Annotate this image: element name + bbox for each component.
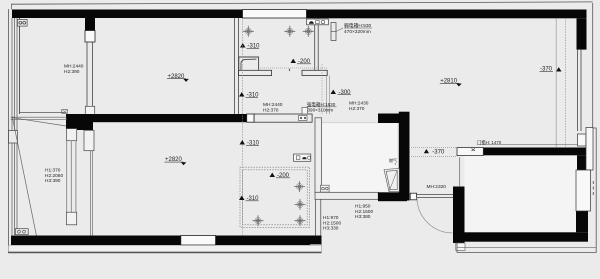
svg-text:H2:1500: H2:1500 bbox=[323, 220, 341, 226]
wall stub between room1 and room2 bbox=[85, 18, 95, 31]
dimension line above room9 top wall bbox=[477, 144, 592, 146]
弱电箱 wall box bbox=[331, 23, 336, 41]
wall top-right corner vertical bbox=[577, 18, 587, 49]
room9 right white box above corner bbox=[578, 134, 587, 146]
room7 top edge line bbox=[322, 122, 398, 124]
switch mark in threshold bbox=[472, 149, 476, 152]
wall top band right segment bbox=[307, 10, 587, 19]
fan symbol box top bbox=[307, 19, 329, 25]
sliding door frame box below column bbox=[84, 130, 94, 150]
room7 bottom black block bbox=[378, 192, 407, 201]
svg-text:燃气: 燃气 bbox=[389, 157, 397, 163]
svg-text:470×320mm: 470×320mm bbox=[344, 29, 371, 35]
balcony diagonal 2 bbox=[13, 118, 67, 126]
label -200 room3 bbox=[291, 59, 297, 63]
sliding door track lines bbox=[89, 151, 91, 236]
white box below left wall bbox=[456, 243, 465, 250]
room1 south line bbox=[20, 112, 67, 114]
label -310 room3 bbox=[240, 43, 246, 47]
dashed line right side vertical bbox=[564, 18, 566, 147]
niche box below stub bbox=[85, 31, 95, 43]
svg-text:门槛H: 1470: 门槛H: 1470 bbox=[477, 139, 502, 146]
label -310 room6 lower bbox=[239, 196, 245, 200]
svg-text:MH:2440: MH:2440 bbox=[64, 64, 84, 70]
dotted ceiling line corridor bbox=[258, 67, 327, 69]
entry door threshold lines bbox=[417, 194, 453, 196]
top-left connector bbox=[10, 4, 12, 9]
label -310 room6 upper bbox=[240, 140, 246, 144]
tick below 燃气 bbox=[395, 163, 396, 164]
L wall horizontal (room4 SW) bbox=[378, 114, 409, 124]
dotted doorway line lower bbox=[409, 156, 457, 158]
bottom wall end outline bbox=[310, 244, 321, 250]
sockets row box room6 top bbox=[294, 154, 311, 161]
room6 right wall outlined band bbox=[315, 118, 322, 193]
wall lines below band down to bottom wall bbox=[315, 199, 317, 236]
wall end box above mid wall bbox=[85, 106, 94, 114]
dotted doorway line upper bbox=[409, 147, 457, 149]
room9 bottom wall bbox=[465, 232, 589, 241]
window W1 top (bathroom window) bbox=[243, 10, 307, 19]
svg-text:H2:390: H2:390 bbox=[64, 69, 80, 75]
svg-text:MH:2430: MH:2430 bbox=[349, 101, 369, 107]
room9 right wall NE vertical bbox=[577, 155, 586, 170]
room9 outer outline right bbox=[457, 128, 596, 252]
room9 outer outline inner line bbox=[457, 247, 596, 249]
svg-text:MH:2440: MH:2440 bbox=[263, 102, 283, 108]
label -300 bbox=[331, 90, 337, 94]
room1 left wall line bbox=[19, 18, 21, 114]
thin wall room2/room3 double line bbox=[234, 18, 236, 114]
bottom outline band bbox=[8, 245, 321, 252]
window room5/balcony lines bbox=[66, 141, 68, 213]
door jamb box entry bbox=[410, 193, 416, 200]
outer boundary line right upper bbox=[592, 3, 594, 128]
bathroom room3: shower corner bbox=[239, 57, 259, 72]
outer boundary line left bbox=[7, 9, 9, 253]
svg-text:H3:390: H3:390 bbox=[45, 178, 61, 184]
svg-text:H1:370: H1:370 bbox=[45, 168, 61, 174]
bathroom south wall right segment bbox=[302, 70, 327, 75]
svg-text:H1:950: H1:950 bbox=[355, 204, 371, 210]
svg-text:-370: -370 bbox=[432, 149, 445, 155]
room9 interior white floor bbox=[465, 155, 578, 232]
强电箱 wall box bbox=[302, 108, 308, 115]
corridor right wall double line bbox=[326, 76, 328, 115]
svg-text:H2:370: H2:370 bbox=[263, 107, 279, 113]
window end box bottom bbox=[66, 212, 76, 225]
balcony diagonal 1 bbox=[13, 118, 37, 236]
socket symbol in low wall bbox=[299, 116, 308, 121]
balcony north line bbox=[11, 116, 67, 118]
label -200 room6 bbox=[270, 173, 276, 177]
small box with X on wall below room1 bbox=[62, 110, 68, 114]
svg-text:H3:380: H3:380 bbox=[355, 214, 371, 220]
wall top band left segment bbox=[12, 10, 243, 19]
bathroom south wall left segment bbox=[239, 70, 272, 75]
svg-text:-300: -300 bbox=[339, 90, 352, 96]
svg-text:MH:2320: MH:2320 bbox=[427, 184, 447, 190]
label -310 corridor bbox=[239, 92, 245, 96]
middle vertical wall bbox=[399, 112, 410, 201]
dotted vertical line corridor left bbox=[242, 18, 244, 235]
entry door arc bbox=[417, 197, 453, 233]
mid wall column bbox=[66, 114, 93, 130]
low wall band (white) corridor bottom bbox=[254, 114, 312, 122]
entry right wall vertical bbox=[453, 187, 465, 243]
left window mullion box bbox=[9, 131, 18, 144]
door edge line room9 bbox=[459, 157, 461, 187]
room7 white floor bbox=[322, 123, 398, 192]
svg-text:H2:370: H2:370 bbox=[349, 106, 365, 112]
bottom wall left segment bbox=[11, 236, 181, 246]
thin wall room3/room4 bbox=[314, 18, 316, 70]
room9 right window column upper bbox=[586, 128, 593, 171]
thin wall room1/room2 double line bbox=[86, 42, 88, 107]
room9 right wall lower vertical bbox=[576, 211, 588, 232]
dashed ceiling line corridor right bbox=[321, 64, 323, 114]
tick below -200 bbox=[289, 69, 291, 72]
svg-text:H2:2060: H2:2060 bbox=[45, 173, 63, 179]
socket symbol double circle bbox=[321, 185, 330, 192]
room9 top wall bbox=[483, 148, 586, 156]
ceiling lamp crosses room3 bbox=[243, 26, 314, 37]
window right edge (double lines below corner wall) bbox=[577, 50, 579, 131]
svg-text:390×310mm: 390×310mm bbox=[308, 108, 334, 113]
mid wall band bbox=[66, 114, 247, 122]
ac marks right bbox=[592, 181, 594, 195]
room9 left wall bbox=[453, 232, 465, 243]
svg-text:H2:1500: H2:1500 bbox=[355, 209, 373, 215]
弱电箱 leader bbox=[336, 28, 343, 32]
white box below column bbox=[66, 129, 76, 141]
room7 bottom low wall white band bbox=[315, 192, 378, 199]
threshold box mid wall bbox=[247, 114, 254, 122]
bottom outer line bbox=[8, 252, 321, 254]
room9 right window box bbox=[576, 170, 591, 211]
label -370 entry bbox=[424, 149, 429, 153]
outer boundary line top bbox=[11, 2, 593, 4]
bottom wall right segment bbox=[216, 236, 322, 246]
room6 ceiling rect dotted bbox=[240, 167, 310, 227]
bottom window box bbox=[181, 236, 216, 246]
double circle symbol bottom left bbox=[15, 229, 28, 235]
left window glazing lines bbox=[11, 18, 13, 235]
switch box room1 top-left bbox=[17, 19, 27, 26]
ceiling lamp crosses room6 bbox=[253, 181, 306, 226]
threshold box room9 door bbox=[457, 148, 483, 156]
gas meter shape bbox=[384, 168, 399, 191]
svg-text:H3:330: H3:330 bbox=[323, 226, 339, 232]
svg-text:H1:970: H1:970 bbox=[323, 215, 339, 221]
